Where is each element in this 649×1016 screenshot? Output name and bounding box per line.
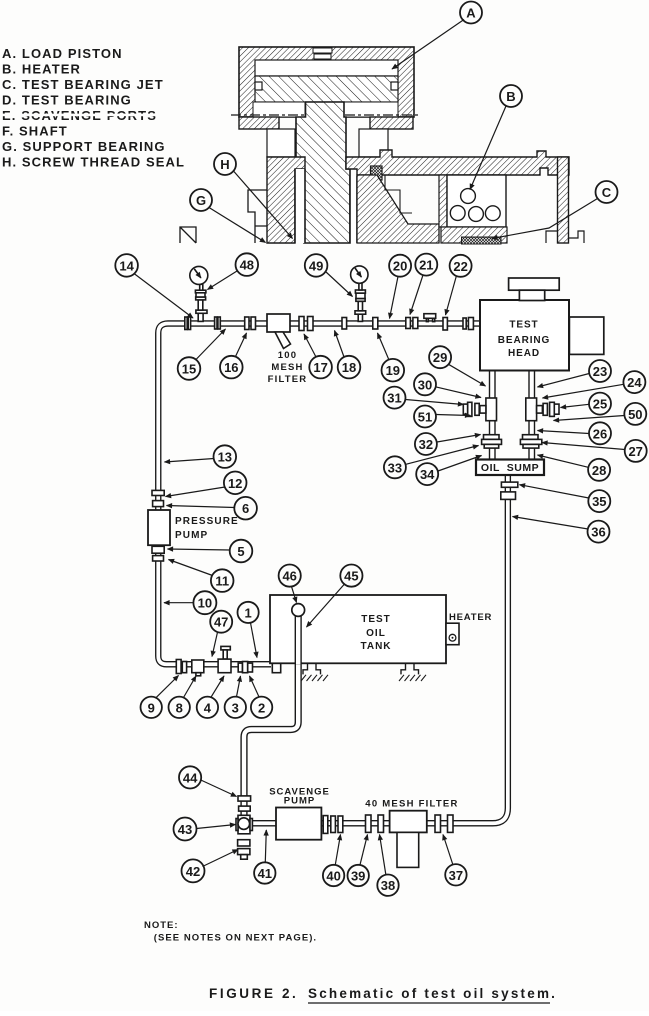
heater terminal	[449, 634, 456, 641]
fitting 16 flange pair	[245, 317, 249, 330]
callout H	[214, 153, 293, 239]
sump drain flange	[501, 482, 517, 487]
svg-text:35: 35	[592, 494, 606, 509]
union 12 above pressure pump	[152, 490, 164, 495]
right union lower	[523, 444, 539, 448]
svg-text:32: 32	[419, 437, 433, 452]
column left of ball cavity	[439, 175, 447, 227]
svg-text:12: 12	[228, 476, 242, 491]
union 3 left	[238, 663, 242, 672]
svg-text:G: G	[196, 193, 206, 208]
union 3 middle	[243, 662, 248, 673]
callout C	[492, 181, 618, 239]
svg-text:27: 27	[628, 444, 642, 459]
bottom-left notch (white)	[253, 102, 305, 117]
callout 10	[164, 591, 216, 614]
gauge 49 lower flange	[356, 299, 365, 302]
40 mesh filter sump	[397, 832, 419, 867]
svg-text:15: 15	[182, 362, 196, 377]
callout 43	[174, 818, 236, 841]
svg-text:FILTER: FILTER	[268, 374, 308, 385]
svg-text:H. SCREW THREAD SEAL: H. SCREW THREAD SEAL	[2, 155, 185, 170]
fitting 8 flange	[182, 662, 186, 673]
right valve cap	[554, 404, 559, 414]
svg-text:41: 41	[258, 866, 272, 881]
svg-text:HEATER: HEATER	[449, 612, 492, 623]
gauge 49 needle	[355, 268, 361, 277]
callout 26	[538, 422, 612, 444]
tank foot right	[401, 663, 419, 674]
svg-text:33: 33	[388, 460, 402, 475]
valve 4 stem	[223, 650, 227, 659]
callout 36	[513, 517, 610, 543]
callout 22	[446, 255, 472, 315]
left valve flange	[475, 403, 479, 415]
callout 15	[178, 329, 226, 380]
callout 18	[335, 331, 361, 379]
top vent fitting	[313, 48, 332, 53]
fitting 22 flange	[443, 318, 447, 331]
svg-text:48: 48	[240, 258, 254, 273]
svg-text:3: 3	[232, 700, 239, 715]
left union middle	[482, 439, 502, 444]
svg-text:38: 38	[381, 878, 395, 893]
test bearing head box	[480, 300, 569, 371]
gauge 48 neck	[200, 284, 203, 290]
svg-text:A: A	[466, 6, 476, 21]
test bearing cavity (white box)	[447, 175, 506, 227]
gauge 48 riser	[198, 300, 203, 310]
svg-text:HEAD: HEAD	[508, 348, 540, 359]
svg-text:(SEE NOTES ON NEXT PAGE).: (SEE NOTES ON NEXT PAGE).	[154, 933, 317, 944]
valve block left drop	[486, 398, 497, 421]
left lower housing outline	[248, 190, 267, 243]
svg-text:36: 36	[591, 525, 605, 540]
svg-text:TEST: TEST	[509, 320, 538, 331]
union 11 below pressure pump	[153, 556, 164, 561]
fitting 21 pipe cap	[426, 318, 428, 322]
svg-text:C: C	[602, 185, 612, 200]
head right auxiliary box	[569, 317, 603, 354]
callout 5	[168, 540, 253, 563]
scavenge cross fitting body	[238, 815, 250, 834]
callout 49	[305, 254, 353, 296]
callout 50	[554, 403, 647, 425]
svg-text:43: 43	[178, 822, 192, 837]
right valve flange	[543, 403, 547, 415]
callout 28	[538, 455, 611, 481]
right outer wall	[558, 157, 569, 243]
fitting 40 flange	[323, 816, 328, 834]
wire oil sump return line down and left to scavenge line	[244, 475, 508, 824]
fitting 15 flange pair	[215, 317, 217, 329]
support column left step	[267, 157, 305, 243]
callout 4	[197, 676, 224, 718]
callout 27	[542, 440, 647, 462]
svg-text:NOTE:: NOTE:	[144, 920, 179, 931]
svg-text:D. TEST BEARING: D. TEST BEARING	[2, 93, 132, 108]
callout 34	[416, 456, 481, 486]
bottom-right notch (white)	[344, 102, 398, 117]
svg-text:39: 39	[351, 869, 365, 884]
right union middle	[520, 439, 541, 444]
callout 51	[414, 406, 471, 428]
100 mesh filter drain funnel	[275, 332, 291, 349]
housing right step outline	[569, 231, 585, 243]
bearing support plate (right horizontal)	[346, 150, 569, 175]
gauge 48 needle	[194, 269, 201, 278]
svg-text:40: 40	[326, 869, 340, 884]
callout 31	[384, 387, 464, 409]
union 6 above pressure pump	[153, 501, 164, 507]
load piston housing top block	[239, 47, 414, 117]
svg-text:OIL SUMP: OIL SUMP	[481, 462, 539, 474]
svg-text:5: 5	[237, 544, 244, 559]
wire bearing head left drain pipe	[489, 371, 496, 461]
union 5 below pressure pump	[152, 546, 164, 553]
callout 42	[182, 850, 239, 883]
small hatched square (left, G marker)	[180, 227, 196, 243]
callout B	[470, 85, 522, 190]
fitting 40 pair a	[331, 816, 336, 833]
bearing ball mid	[469, 207, 484, 222]
scavenge pump box	[276, 808, 321, 840]
svg-text:MESH: MESH	[271, 362, 303, 373]
svg-text:PUMP: PUMP	[175, 530, 208, 541]
oil sump box	[476, 460, 544, 476]
svg-text:4: 4	[204, 700, 212, 715]
piston slot (white)	[255, 60, 398, 76]
svg-text:18: 18	[342, 360, 356, 375]
left union lower	[484, 444, 499, 448]
bearing ball right	[485, 206, 500, 221]
left valve cap	[463, 404, 467, 414]
svg-text:TEST: TEST	[361, 614, 391, 625]
centerline dash-dot	[231, 114, 421, 116]
valve block right drop	[526, 398, 537, 421]
gauge 49 riser	[358, 301, 362, 311]
svg-text:16: 16	[224, 360, 238, 375]
callout 24	[543, 371, 646, 398]
jet channel white	[385, 175, 412, 213]
heater box on tank	[446, 623, 459, 645]
svg-text:B. HEATER: B. HEATER	[2, 62, 81, 77]
white channel between column and shaft	[295, 169, 305, 243]
drain cap below cross	[241, 855, 248, 860]
callout 17	[304, 334, 332, 378]
right valve flange 2	[550, 402, 555, 416]
dark race under balls	[462, 237, 502, 244]
svg-text:B: B	[506, 89, 515, 104]
pressure pump box	[148, 510, 170, 545]
svg-text:PRESSURE: PRESSURE	[175, 516, 239, 527]
svg-text:A. LOAD PISTON: A. LOAD PISTON	[2, 46, 123, 61]
callout 45	[307, 565, 363, 628]
gauge 48 upper flange	[195, 290, 206, 293]
gauge 48 dial	[190, 266, 208, 284]
fitting 40 pair b	[338, 816, 343, 833]
svg-text:29: 29	[433, 350, 447, 365]
gauge 49 upper flange	[355, 290, 365, 293]
svg-text:44: 44	[183, 770, 198, 785]
left valve flange 2	[468, 402, 472, 416]
svg-text:25: 25	[593, 397, 607, 412]
fitting pair at head inlet	[463, 318, 466, 329]
small port left	[255, 82, 262, 90]
callout 8	[169, 676, 197, 718]
lower flange band right	[370, 117, 413, 129]
support bearing block	[357, 175, 439, 243]
right wall foot	[546, 231, 558, 243]
callout 3	[225, 676, 246, 718]
svg-text:20: 20	[393, 259, 407, 274]
callout G	[190, 189, 266, 243]
fitting 20 flange pair	[406, 318, 411, 329]
callout 38	[377, 835, 398, 896]
bearing ball top	[461, 189, 476, 204]
suction tube ball float	[292, 604, 305, 617]
svg-text:H: H	[220, 157, 229, 172]
callout 2	[250, 676, 273, 718]
svg-text:50: 50	[628, 407, 642, 422]
svg-text:28: 28	[592, 463, 606, 478]
tank foot left	[303, 663, 321, 674]
gauge 48 lower flange	[196, 297, 206, 300]
svg-text:47: 47	[214, 615, 228, 630]
fitting 18 flange	[342, 318, 347, 330]
column upper outline left	[267, 129, 295, 157]
svg-text:26: 26	[593, 426, 607, 441]
callout 41	[254, 830, 275, 884]
callout 47	[210, 611, 232, 657]
scavenge cross eye	[238, 818, 250, 830]
fitting 9 flange	[176, 660, 181, 674]
svg-text:30: 30	[418, 377, 432, 392]
gauge 48 valve block	[196, 293, 205, 297]
gauge 49 neck	[359, 283, 362, 290]
callout 12	[166, 472, 247, 497]
callout 48	[208, 253, 259, 289]
svg-text:17: 17	[313, 360, 327, 375]
svg-text:45: 45	[344, 569, 358, 584]
svg-text:2: 2	[258, 700, 265, 715]
union 44b above scavenge cross	[239, 806, 251, 811]
100 mesh filter body	[267, 314, 290, 332]
svg-text:C. TEST BEARING JET: C. TEST BEARING JET	[2, 77, 164, 92]
svg-text:TANK: TANK	[360, 641, 391, 652]
callout A	[392, 2, 482, 70]
gauge 48 tee stem	[198, 313, 203, 321]
lower flange band left	[239, 117, 279, 129]
svg-text:6: 6	[242, 501, 249, 516]
union 42b below cross	[238, 849, 250, 855]
gauge 49 valve block	[356, 293, 365, 298]
svg-text:14: 14	[119, 258, 134, 273]
tank inlet block	[272, 662, 280, 673]
head top knob stem	[519, 290, 544, 300]
callout 37	[443, 835, 467, 886]
svg-text:Schematic of test oil system.: Schematic of test oil system.	[308, 986, 557, 1001]
svg-text:37: 37	[449, 868, 463, 883]
callout 39	[348, 835, 369, 887]
test oil tank box	[270, 595, 446, 663]
fitting 37 flange pair	[435, 815, 441, 832]
bearing ball left	[450, 206, 465, 221]
svg-text:11: 11	[215, 574, 229, 589]
gauge 49 base flange	[355, 311, 366, 314]
callout 13	[165, 445, 237, 468]
sump drain union block	[501, 492, 516, 500]
callout 16	[220, 333, 247, 378]
callout 40	[323, 835, 344, 887]
svg-text:19: 19	[386, 363, 400, 378]
callout 30	[414, 373, 481, 397]
callout 46	[279, 565, 301, 603]
callout 25	[561, 393, 612, 415]
svg-text:9: 9	[148, 700, 155, 715]
svg-text:46: 46	[282, 569, 296, 584]
svg-text:PUMP: PUMP	[284, 796, 315, 807]
svg-text:31: 31	[387, 391, 401, 406]
svg-text:FIGURE 2.: FIGURE 2.	[209, 986, 298, 1001]
piston head hatched	[255, 76, 398, 102]
svg-text:F. SHAFT: F. SHAFT	[2, 124, 68, 139]
right union upper	[523, 435, 539, 440]
gauge 48 base flange	[196, 310, 207, 313]
ground hatch right	[399, 675, 426, 681]
band below bearing cavity	[441, 227, 507, 243]
valve 4 body	[218, 659, 231, 673]
union 44 above scavenge cross	[238, 796, 251, 801]
gauge 49 dial	[351, 266, 368, 283]
wire tank suction tube with S-bend down to scavenge cross	[244, 612, 298, 816]
svg-text:24: 24	[627, 375, 642, 390]
svg-text:OIL: OIL	[366, 628, 386, 639]
gauge 49 tee stem	[358, 314, 362, 321]
callout 29	[429, 346, 485, 386]
svg-text:13: 13	[218, 450, 232, 465]
svg-text:42: 42	[186, 864, 200, 879]
union 42 below cross	[238, 840, 250, 846]
small port right	[391, 82, 398, 90]
fitting 19 flange	[373, 318, 378, 330]
callout 1	[238, 602, 259, 658]
svg-text:G. SUPPORT BEARING: G. SUPPORT BEARING	[2, 139, 166, 154]
left valve side stem	[480, 406, 486, 414]
callout 33	[384, 446, 479, 479]
white channel right of shaft	[350, 176, 357, 243]
svg-text:8: 8	[176, 700, 183, 715]
valve 4 T-handle	[221, 646, 230, 650]
fitting 39 flange pair	[366, 815, 372, 832]
callout 11	[169, 560, 234, 592]
callout 44	[179, 766, 237, 796]
callout 20	[389, 255, 411, 319]
40 mesh filter body	[390, 811, 427, 833]
svg-text:21: 21	[419, 258, 433, 273]
thread seal crosshatch square	[371, 166, 383, 180]
callout 35	[520, 485, 611, 512]
piston stem / shaft	[296, 102, 350, 243]
fitting 8 block foot	[196, 673, 201, 676]
wire main supply loop: top pipe + left vertical + bottom-left horizontal	[158, 324, 480, 665]
wire bearing head right drain pipe	[528, 371, 535, 461]
svg-text:22: 22	[453, 259, 467, 274]
callout 9	[141, 676, 179, 719]
callout 19	[378, 333, 405, 382]
column upper outline right	[359, 129, 388, 157]
union 3 right	[248, 663, 253, 672]
svg-text:51: 51	[418, 410, 432, 425]
fitting 14 flange pair	[185, 317, 187, 330]
fitting 8 block	[192, 660, 204, 673]
callout 14	[115, 254, 193, 318]
callout 32	[415, 433, 481, 455]
head top knob bar	[509, 278, 560, 290]
right valve side stem	[537, 406, 543, 414]
ground hatch left	[301, 675, 328, 681]
svg-text:100: 100	[278, 350, 297, 361]
svg-text:1: 1	[244, 605, 251, 620]
fitting 17 flange pair	[299, 317, 304, 331]
svg-text:BEARING: BEARING	[498, 335, 550, 346]
svg-text:23: 23	[593, 364, 607, 379]
svg-text:40 MESH FILTER: 40 MESH FILTER	[365, 799, 458, 810]
svg-text:49: 49	[309, 258, 323, 273]
left union upper	[484, 435, 500, 440]
svg-text:34: 34	[420, 467, 435, 482]
print dropout stripe on line E	[0, 114, 158, 117]
callout 23	[538, 360, 612, 387]
callout 6	[167, 497, 257, 520]
callout 21	[410, 254, 437, 315]
svg-text:10: 10	[198, 596, 212, 611]
suction tube inside tank	[295, 612, 302, 664]
